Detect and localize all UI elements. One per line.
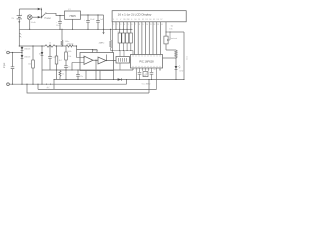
- svg-text:1n: 1n: [68, 67, 70, 69]
- svg-text:6: 6: [131, 24, 132, 26]
- svg-text:D2: D2: [142, 19, 144, 21]
- svg-text:8: 8: [139, 24, 140, 26]
- svg-text:10k: 10k: [118, 31, 121, 33]
- svg-text:11: 11: [150, 24, 152, 26]
- svg-text:7: 7: [135, 24, 136, 26]
- svg-text:RW: RW: [127, 19, 130, 21]
- svg-text:22u: 22u: [80, 76, 83, 78]
- svg-text:LM393: LM393: [92, 50, 99, 52]
- svg-text:PIC 16F628: PIC 16F628: [139, 60, 154, 64]
- svg-text:7805: 7805: [69, 14, 76, 18]
- svg-text:4MHz: 4MHz: [99, 43, 105, 45]
- svg-text:D4: D4: [149, 19, 151, 21]
- svg-text:50mA: 50mA: [31, 21, 36, 24]
- svg-text:Input: Input: [3, 62, 6, 68]
- svg-text:4k7: 4k7: [59, 60, 62, 62]
- svg-text:4: 4: [124, 24, 125, 26]
- svg-text:1N4148: 1N4148: [24, 57, 30, 59]
- svg-text:2n2: 2n2: [47, 89, 50, 91]
- svg-text:D1: D1: [138, 19, 140, 21]
- svg-text:D6: D6: [157, 19, 159, 21]
- svg-text:Power: Power: [45, 17, 52, 20]
- svg-text:LED: LED: [180, 71, 184, 73]
- svg-text:IC1: IC1: [68, 9, 71, 11]
- svg-text:12: 12: [154, 24, 156, 26]
- svg-text:1N4148: 1N4148: [24, 49, 30, 51]
- svg-text:9: 9: [143, 24, 144, 26]
- svg-text:10k: 10k: [28, 64, 31, 66]
- svg-text:1N4148: 1N4148: [67, 44, 73, 46]
- svg-text:D3: D3: [146, 19, 148, 21]
- svg-text:14: 14: [161, 24, 163, 26]
- svg-text:16 x 1 (or 2) LCD Display: 16 x 1 (or 2) LCD Display: [118, 13, 152, 17]
- svg-text:Contrast: Contrast: [170, 37, 178, 40]
- svg-text:D5: D5: [153, 19, 155, 21]
- svg-text:10: 10: [146, 24, 148, 26]
- svg-text:10uF: 10uF: [90, 19, 95, 21]
- svg-text:10uF: 10uF: [56, 25, 61, 27]
- svg-text:1: 1: [113, 24, 114, 26]
- svg-text:13: 13: [157, 24, 159, 26]
- svg-text:D0: D0: [134, 19, 136, 21]
- svg-text:100k: 100k: [68, 51, 72, 53]
- svg-text:5mm: 5mm: [187, 56, 189, 60]
- svg-text:1k: 1k: [62, 73, 64, 75]
- svg-text:D7: D7: [160, 19, 162, 21]
- svg-text:10k: 10k: [68, 56, 71, 58]
- svg-text:10k: 10k: [169, 29, 172, 31]
- svg-text:1k: 1k: [49, 43, 51, 45]
- svg-text:100n: 100n: [65, 41, 69, 43]
- svg-text:2.2u: 2.2u: [53, 57, 57, 59]
- svg-text:2: 2: [117, 24, 118, 26]
- svg-text:3: 3: [120, 24, 121, 26]
- svg-text:5: 5: [128, 24, 129, 26]
